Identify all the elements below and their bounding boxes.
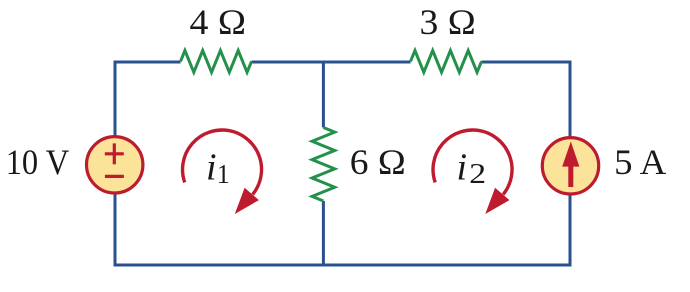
svg-text:2: 2 [469, 159, 486, 190]
svg-text:6 Ω: 6 Ω [350, 142, 406, 182]
svg-text:10 V: 10 V [6, 142, 70, 182]
svg-text:5 A: 5 A [614, 142, 666, 182]
svg-text:4 Ω: 4 Ω [190, 2, 247, 42]
svg-text:1: 1 [217, 159, 230, 189]
svg-text:i: i [206, 147, 217, 189]
svg-text:i: i [457, 147, 468, 189]
svg-text:3 Ω: 3 Ω [420, 2, 476, 42]
